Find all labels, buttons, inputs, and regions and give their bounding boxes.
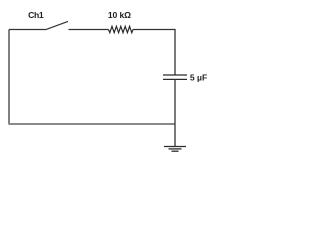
wire: top left segment to switch [9,29,46,31]
ground bar 1 [164,146,186,148]
ground bar 3 [172,150,179,152]
wire: right vertical lower [174,79,176,146]
resistor R1 zigzag [109,26,134,32]
wire: bottom horizontal [8,123,175,125]
capacitor C1 top plate [163,74,187,76]
wire: left vertical [8,30,10,125]
wire: right vertical upper [174,29,176,75]
svg-text:10 kΩ: 10 kΩ [108,10,131,20]
wire: resistor to top-right corner [133,29,175,31]
svg-text:5 µF: 5 µF [190,73,207,83]
ground bar 2 [169,148,182,150]
svg-text:Ch1: Ch1 [28,10,44,20]
switch Ch1 blade [46,21,69,29]
capacitor C1 bottom plate [163,78,187,80]
wire: switch to resistor [69,29,109,31]
